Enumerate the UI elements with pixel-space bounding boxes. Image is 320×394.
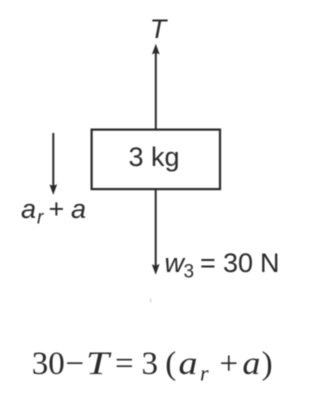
svg-text:−: − xyxy=(66,346,85,382)
svg-text:30: 30 xyxy=(223,248,253,278)
faint artifact mark xyxy=(150,299,151,303)
svg-text:+: + xyxy=(220,346,239,382)
svg-text:N: N xyxy=(260,248,280,278)
svg-text:=: = xyxy=(200,248,216,278)
svg-text:3: 3 xyxy=(142,346,159,382)
svg-text:r: r xyxy=(200,361,209,386)
svg-text:3 kg: 3 kg xyxy=(128,142,179,172)
svg-text:=: = xyxy=(115,346,134,382)
weight arrow (downward from box bottom) xyxy=(152,189,160,275)
svg-text:w: w xyxy=(165,248,186,278)
svg-text:(: ( xyxy=(165,346,176,382)
svg-text:r: r xyxy=(37,208,44,229)
equation 30 - T = 3(ar + a) xyxy=(32,346,273,386)
label w3 = 30 N xyxy=(165,248,280,283)
tension arrow (upward from box top) xyxy=(152,44,160,130)
acceleration arrow (downward, left of box) xyxy=(49,133,57,195)
svg-text:a: a xyxy=(179,346,198,382)
svg-text:3: 3 xyxy=(184,262,195,283)
svg-text:T: T xyxy=(150,14,169,44)
svg-text:a: a xyxy=(71,194,86,224)
svg-text:a: a xyxy=(242,346,260,382)
label ar + a xyxy=(21,194,86,229)
svg-text:a: a xyxy=(21,194,36,224)
mass box xyxy=(92,130,220,190)
svg-text:): ) xyxy=(262,346,273,382)
svg-text:+: + xyxy=(49,194,65,224)
svg-text:30: 30 xyxy=(32,346,65,382)
svg-text:T: T xyxy=(86,346,112,382)
